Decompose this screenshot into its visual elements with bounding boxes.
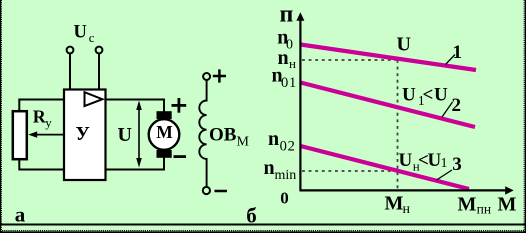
leader line 1 [446,55,456,65]
label n01 [272,65,298,91]
curve 3 (Un < U1) [301,146,470,189]
svg-text:н: н [403,202,411,217]
svg-text:ОВ: ОВ [209,125,237,146]
svg-text:3: 3 [452,154,462,175]
svg-text:а: а [15,202,26,226]
frame right dotted border [524,0,525,233]
svg-text:н: н [289,56,296,71]
svg-text:U: U [399,150,413,171]
label OBm [209,125,250,150]
label U1 < U on curve 2 [402,85,448,110]
svg-text:0: 0 [280,189,289,208]
x axis M [300,186,514,194]
dashed level n_n [302,59,398,61]
voltage arrow U [136,101,142,168]
leader line 3 [437,170,453,180]
svg-text:n: n [264,157,275,179]
frame left dotted border [1,0,2,233]
svg-text:М: М [385,193,404,215]
svg-text:М: М [498,194,517,216]
label Ry [33,107,53,131]
label Mpn under axis [458,194,492,217]
svg-text:пн: пн [477,201,491,216]
svg-text:М: М [156,122,173,142]
wire Ry bottom loop [19,160,63,170]
motor M circle [149,119,180,150]
svg-text:01: 01 [281,75,297,91]
wire wiper arrow from amplifier to Ry [28,131,63,137]
svg-text:<: < [423,85,434,106]
svg-text:U: U [434,85,448,106]
motor brush bottom [157,150,172,158]
minus sign motor [174,155,187,158]
svg-text:U: U [118,124,132,146]
frame bottom border [0,231,526,233]
label n_n [278,47,297,71]
svg-text:U: U [428,150,442,171]
svg-text:М: М [237,134,250,149]
label n02 [268,128,296,154]
svg-text:min: min [275,168,297,183]
svg-text:U: U [397,34,411,56]
wire amplifier to motor top [106,100,165,112]
minus sign OBm [215,190,228,193]
leader line 2 [442,102,453,117]
wire Uc left to amplifier [69,54,71,89]
svg-text:1: 1 [453,42,463,63]
label Un < U1 on curve 3 [399,150,448,174]
terminal circle Uc right [96,47,103,54]
svg-text:с: с [89,30,95,45]
svg-text:U: U [74,23,87,43]
potentiometer Ry [13,111,27,159]
wire Ry top loop [19,100,63,112]
amplifier triangle symbol [85,92,103,106]
label Uc [74,23,95,45]
motor brush top [157,111,172,119]
svg-text:п: п [280,2,294,28]
svg-text:1: 1 [441,156,448,171]
dashed level n_min [302,170,397,172]
curve 2 (U1 < U) [301,83,476,128]
wire amplifier to motor bottom [106,158,165,170]
svg-text:2: 2 [452,95,462,116]
svg-text:У: У [76,124,90,145]
figure bottom rule [0,224,526,226]
curve 1 (U) [301,45,477,71]
svg-text:n: n [268,128,279,150]
label n0 [277,26,293,52]
label n_min [264,157,297,183]
svg-text:у: у [45,115,52,130]
plus sign motor [172,98,187,113]
wire Uc right to amplifier [98,54,100,89]
svg-text:б: б [246,203,256,227]
field winding OBm terminal top [203,73,210,80]
amplifier U (box) [64,90,106,181]
field winding OBm coil [199,80,206,187]
svg-text:U: U [402,85,416,106]
terminal circle Uc left [67,47,74,54]
svg-text:М: М [458,194,477,216]
plus sign OBm [213,69,226,82]
field winding OBm terminal bottom [203,187,210,194]
dashed vertical M_n [397,60,399,189]
label Mn under axis [385,193,411,218]
svg-text:02: 02 [280,138,296,154]
y axis n [296,12,304,190]
